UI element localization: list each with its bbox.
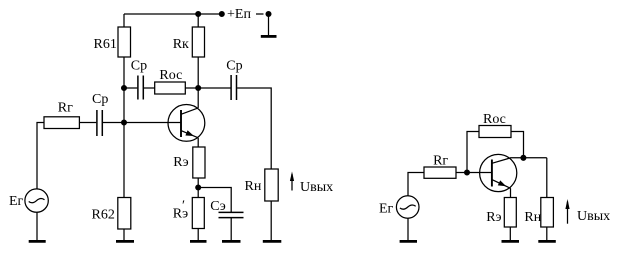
wire Eg2 to ground: [407, 218, 409, 241]
wire Rg to input Cp: [79, 122, 96, 124]
node feedback tap on left bus: [122, 86, 127, 91]
wire Rn to ground: [270, 201, 272, 241]
resistor Re2: [504, 198, 516, 228]
capacitor Cp (output): [231, 75, 236, 100]
wire Ce to ground: [230, 218, 232, 241]
transistor VT2 emitter arrow: [498, 180, 506, 186]
wire base node to Roc2: [467, 132, 479, 173]
output arrow Uout: [290, 172, 294, 191]
node emitter divider junction: [196, 185, 201, 190]
ground Re2: [502, 240, 520, 243]
transistor VT2 emitter lead: [492, 180, 511, 189]
svg-text:Ср: Ср: [92, 92, 108, 107]
svg-text:Rэ: Rэ: [486, 210, 501, 225]
ground Eg: [29, 240, 46, 243]
svg-text:R61: R61: [94, 37, 117, 52]
transistor VT1: [168, 105, 205, 142]
resistor Re: [193, 147, 205, 178]
transistor VT2: [480, 154, 517, 191]
wire Rk top stub: [197, 14, 199, 27]
resistor Roc2: [479, 126, 511, 138]
svg-text:′: ′: [182, 199, 185, 214]
transistor VT1 base bar: [180, 110, 182, 137]
svg-text:Ср: Ср: [226, 59, 242, 74]
resistor R62: [118, 198, 131, 230]
svg-text:Rн: Rн: [524, 210, 541, 225]
wire Eg2 to Rg2: [408, 173, 424, 196]
transistor VT1 collector lead: [181, 108, 198, 114]
node collector junction right: [521, 155, 526, 160]
capacitor Ce: [219, 212, 244, 217]
node collector junction: [196, 86, 201, 91]
transistor VT1 emitter lead: [181, 131, 198, 138]
wire feedback node to Cp: [124, 87, 137, 89]
transistor VT1 emitter arrow: [185, 130, 194, 136]
capacitor Cp (input): [97, 110, 102, 136]
resistor Rk: [192, 27, 204, 57]
resistor Rn: [265, 169, 278, 201]
wire base: [124, 122, 181, 124]
wire left bus R61 to R62: [123, 57, 125, 198]
ground Rn2: [538, 240, 556, 243]
wire supply rail: [124, 13, 222, 15]
svg-text:Rэ: Rэ: [173, 155, 188, 170]
wire Roc to collector node: [185, 87, 198, 89]
label Rэ': [173, 199, 188, 222]
supply minus dash: [256, 13, 264, 15]
svg-text:Rос: Rос: [159, 68, 182, 83]
resistor Rn2: [541, 198, 554, 228]
svg-text:Rэ: Rэ: [173, 207, 188, 222]
capacitor Cp (feedback): [138, 76, 143, 100]
ground R62: [116, 240, 134, 243]
wire Re2 to ground: [509, 227, 511, 241]
source Eg2 sine: [400, 205, 416, 209]
svg-text:Rк: Rк: [173, 37, 189, 52]
svg-text:+Еп: +Еп: [227, 7, 251, 22]
wire Cp to Roc: [144, 87, 155, 89]
ground Eg2: [400, 240, 417, 243]
wire Re to emitter node: [197, 178, 199, 198]
svg-text:Uвых: Uвых: [577, 209, 610, 224]
node supply plus terminal: [219, 12, 224, 17]
wire R62 to ground: [123, 229, 125, 241]
node base junction: [122, 120, 127, 125]
node supply minus terminal: [266, 12, 271, 17]
svg-text:Ег: Ег: [9, 194, 24, 209]
source Eg sine: [29, 199, 45, 203]
wire collector node to Rn2: [546, 158, 548, 198]
resistor Roc: [155, 82, 186, 94]
ground Re': [190, 240, 207, 243]
wire Rk bottom to collector: [197, 57, 199, 108]
wire Eg to ground: [36, 212, 38, 241]
wire input Cp to base node: [103, 122, 124, 124]
ground Rn: [263, 240, 282, 243]
transistor VT2 collector lead: [492, 158, 547, 164]
transistor VT2 base bar: [491, 160, 493, 187]
ground Ce: [222, 240, 241, 243]
output arrow Uout right: [565, 199, 569, 224]
svg-text:Сэ: Сэ: [210, 199, 226, 214]
wire collector node to output Cp: [198, 87, 230, 89]
ground supply: [261, 35, 277, 38]
wire Eg to Rg: [37, 123, 44, 190]
resistor Rg: [44, 117, 79, 129]
wire Rn2 to ground: [546, 227, 548, 241]
svg-text:Uвых: Uвых: [300, 180, 333, 195]
svg-text:Rг: Rг: [58, 101, 73, 116]
wire output Cp to load corner: [237, 88, 271, 169]
resistor Re': [192, 198, 204, 229]
svg-text:Rг: Rг: [433, 154, 448, 169]
source Eg: [25, 189, 48, 212]
wire supply minus to ground: [268, 14, 270, 35]
svg-text:Rос: Rос: [483, 112, 506, 127]
wire Re' to ground: [197, 229, 199, 242]
wire emitter to Re2: [510, 188, 512, 197]
node base junction right: [465, 170, 470, 175]
source Eg2: [396, 196, 419, 219]
node junction at Rk top: [196, 12, 201, 17]
svg-text:Ег: Ег: [379, 202, 394, 217]
svg-text:Ср: Ср: [131, 58, 147, 73]
resistor Rg2: [424, 167, 456, 178]
wire emitter node to Ce: [198, 188, 231, 213]
resistor R61: [118, 27, 131, 57]
wire emitter to Re: [197, 138, 199, 147]
wire Roc2 to collector node: [511, 132, 524, 158]
wire R61 top stub: [123, 14, 125, 27]
wire Rg2 to base: [456, 172, 492, 174]
svg-text:Rн: Rн: [245, 179, 262, 194]
svg-text:R62: R62: [92, 208, 115, 223]
